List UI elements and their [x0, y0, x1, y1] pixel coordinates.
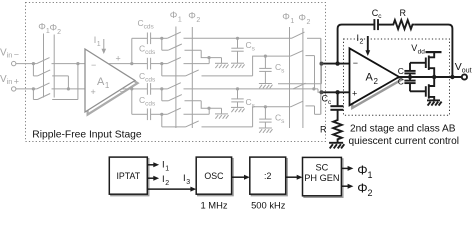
- svg-text:R: R: [400, 8, 407, 18]
- node S4 to top rail: [76, 62, 79, 65]
- node row4: [160, 113, 163, 116]
- label Ccds row2: [139, 44, 156, 57]
- svg-text:1: 1: [105, 81, 110, 90]
- capacitor Cc feedback: [374, 19, 391, 30]
- input terminal Vin-: [12, 61, 34, 65]
- block SC PH GEN: [303, 157, 342, 195]
- ground NMOS source: [427, 100, 442, 105]
- label phi1 bank2: [282, 12, 294, 26]
- svg-text:in: in: [7, 51, 13, 60]
- node class AB caps: [408, 75, 412, 79]
- label Vin-: [0, 48, 19, 60]
- current source I1 arrow: [102, 39, 107, 54]
- svg-text:quiescent current control: quiescent current control: [349, 136, 460, 147]
- svg-text:IPTAT: IPTAT: [116, 171, 140, 181]
- power Vdd rail: [426, 51, 442, 53]
- label I2: [357, 33, 364, 46]
- svg-text:Φ: Φ: [282, 12, 290, 23]
- switch row4 phi2: [162, 108, 209, 114]
- node cross row3: [312, 87, 315, 90]
- op-amp A2 shadow: [352, 51, 402, 108]
- label A2: [366, 72, 379, 87]
- capacitor Cs4: [259, 107, 271, 128]
- wire left rail lower: [131, 89, 133, 114]
- svg-text:2: 2: [368, 188, 373, 198]
- ground R branch: [329, 143, 344, 149]
- svg-text:V: V: [411, 43, 417, 53]
- svg-text:out: out: [462, 68, 472, 75]
- switch row1 phi1: [162, 32, 292, 38]
- svg-text:1: 1: [165, 166, 169, 173]
- node row3: [160, 87, 163, 90]
- svg-text:2nd stage and class AB: 2nd stage and class AB: [350, 123, 456, 134]
- label Vdd: [411, 43, 425, 56]
- label Cs1: [246, 40, 256, 53]
- op-amp A2: [350, 48, 400, 105]
- svg-text:−: −: [91, 60, 96, 70]
- label Cc feedback: [372, 8, 383, 20]
- switch S4 phi2 cross lower: [33, 64, 78, 100]
- svg-text:1: 1: [290, 18, 294, 25]
- switch row1 bank2: [292, 32, 321, 64]
- wire sub-path row3: [162, 89, 222, 114]
- label Cs2: [275, 62, 285, 75]
- svg-text:PH GEN: PH GEN: [304, 173, 339, 183]
- terminal Vout: [462, 74, 467, 79]
- svg-text:in: in: [7, 77, 13, 86]
- node chopper top rail: [32, 62, 35, 65]
- svg-text:2: 2: [57, 29, 61, 36]
- svg-text:−: −: [120, 87, 125, 97]
- svg-text:C: C: [398, 66, 404, 76]
- wire A2 output: [399, 76, 434, 78]
- label I1 bottom: [162, 160, 169, 173]
- arrow div2 to SC: [286, 175, 303, 180]
- wire demod branch busA: [278, 64, 322, 84]
- node rail lower output: [130, 87, 133, 90]
- wire phi2 control line chopper: [53, 35, 55, 98]
- transistor PMOS: [426, 52, 434, 77]
- input terminal Vin+: [12, 87, 34, 91]
- label Cc input branch: [322, 94, 333, 107]
- wire left rail upper: [131, 38, 133, 63]
- svg-text:I: I: [162, 160, 165, 171]
- svg-text:V: V: [455, 61, 462, 73]
- GRAY LABELS: [0, 10, 311, 125]
- wire feedback left vertical and top left: [338, 25, 375, 64]
- node Cs3 row3: [236, 87, 239, 90]
- capacitor C upper class AB: [404, 63, 425, 77]
- arrow OSC to div2: [232, 175, 250, 180]
- label A1: [97, 76, 110, 90]
- wire phi2 control line bank2: [302, 28, 304, 128]
- wire bus A to A2 minus input: [322, 63, 351, 65]
- node Cs1 row1: [236, 37, 239, 40]
- svg-text:1: 1: [178, 17, 182, 24]
- node Cs4 tap: [264, 105, 267, 108]
- ground Cs1: [231, 63, 245, 68]
- label I2 bottom: [162, 174, 169, 187]
- wire A1 output minus: [122, 88, 132, 90]
- ground Cs3: [231, 107, 245, 112]
- ground Cs4: [259, 128, 273, 133]
- svg-text:3: 3: [186, 179, 190, 186]
- wire I3 to OSC: [147, 187, 196, 192]
- svg-text:+: +: [14, 77, 19, 87]
- BOTTOM LABELS: [116, 160, 372, 211]
- svg-text:+: +: [91, 87, 96, 97]
- svg-text:Φ: Φ: [188, 10, 196, 21]
- svg-text:OSC: OSC: [204, 171, 224, 181]
- label phi2 bank1: [188, 10, 200, 24]
- svg-text:C: C: [398, 77, 404, 87]
- switch row3 phi1: [162, 83, 321, 93]
- ground sub1: [215, 63, 229, 68]
- svg-text:cds: cds: [144, 24, 155, 31]
- node sub1: [207, 56, 210, 59]
- block IPTAT: [109, 157, 147, 194]
- switch row2 phi2: [162, 57, 209, 63]
- label phi2 output: [357, 180, 372, 198]
- label Ccds row1: [138, 18, 155, 31]
- capacitor Cs3: [231, 89, 243, 108]
- svg-text:A: A: [366, 72, 374, 84]
- dashed box: 2nd stage and class AB: [344, 39, 450, 115]
- resistor R input branch: [333, 118, 342, 143]
- svg-text:Φ: Φ: [298, 13, 306, 24]
- svg-text:1: 1: [97, 41, 101, 48]
- svg-text:A: A: [97, 76, 105, 88]
- capacitor Cs2: [259, 56, 271, 83]
- wire A1 output plus: [109, 63, 132, 65]
- block OSC shadow: [198, 159, 233, 196]
- capacitor Cs1: [231, 38, 243, 63]
- node bus B: [320, 90, 324, 94]
- svg-text:Φ: Φ: [357, 180, 367, 195]
- node row2: [160, 62, 163, 65]
- block OSC: [196, 157, 231, 194]
- svg-text:Ripple-Free Input Stage: Ripple-Free Input Stage: [32, 129, 142, 140]
- arrow I2: [147, 176, 159, 181]
- resistor R feedback: [392, 20, 415, 29]
- wire phi2 control line bank1: [191, 27, 193, 128]
- wire output bus gray: [320, 38, 322, 114]
- label I1: [94, 35, 101, 48]
- node row1: [160, 37, 163, 40]
- wire sub-path row2: [162, 50, 315, 89]
- node A2 minus feedback: [335, 61, 339, 65]
- node feedback output: [450, 75, 454, 79]
- switch S1 phi1 top straight: [33, 58, 85, 64]
- label phi1 bank1: [170, 10, 182, 24]
- node chopper bottom rail: [32, 87, 35, 90]
- wire phi1 control line chopper: [43, 34, 45, 98]
- node bus A: [320, 62, 324, 66]
- capacitor C lower class AB: [404, 77, 425, 91]
- switch S2 phi2 cross upper: [33, 64, 68, 89]
- svg-text:cds: cds: [145, 77, 156, 84]
- label phi2 bank2: [298, 13, 310, 27]
- node S2 to bottom rail: [67, 87, 70, 90]
- current source I2 arrow: [365, 36, 370, 56]
- capacitor Ccds row2: [132, 58, 162, 70]
- label Vin+: [0, 74, 19, 87]
- BLACK LABELS right side: [320, 8, 472, 147]
- svg-text:−: −: [14, 50, 19, 60]
- node Cs2 tap: [264, 55, 267, 58]
- wire phi1 control line bank2: [289, 27, 291, 128]
- transistor NMOS: [426, 77, 434, 100]
- ground Cs2: [259, 84, 273, 89]
- svg-text:2: 2: [374, 77, 379, 86]
- svg-text:dd: dd: [418, 48, 426, 55]
- capacitor Ccds row1: [132, 33, 162, 45]
- op-amp A1 shadow: [88, 52, 138, 115]
- node A2 plus bias: [335, 90, 339, 94]
- label phi1 chopper: [38, 22, 50, 36]
- label Cs3: [246, 97, 256, 110]
- svg-text:2: 2: [307, 19, 311, 26]
- label phi1 output: [357, 162, 372, 180]
- svg-text:+: +: [352, 89, 357, 99]
- svg-text:1: 1: [368, 170, 373, 180]
- wire sub-path row4: [162, 101, 315, 127]
- op-amp A1: [85, 49, 135, 112]
- label Ccds row4: [139, 95, 156, 108]
- ground sub3: [215, 114, 229, 119]
- arrow phi2 out: [341, 184, 353, 189]
- switch cross row3 bank2: [293, 83, 306, 89]
- svg-text:−: −: [353, 58, 358, 68]
- svg-text:SC: SC: [316, 162, 329, 172]
- svg-text:1 MHz: 1 MHz: [200, 199, 227, 209]
- svg-text:Φ: Φ: [357, 162, 367, 177]
- node rail upper output: [130, 62, 133, 65]
- wire sub4 to bus B: [315, 92, 321, 114]
- block IPTAT shadow: [111, 159, 149, 196]
- label Cs4: [275, 113, 285, 126]
- capacitor Cc input branch: [330, 92, 343, 118]
- svg-text:cds: cds: [145, 49, 156, 56]
- label phi2 chopper: [50, 23, 62, 37]
- node sub3: [207, 107, 210, 110]
- node output drains: [432, 75, 436, 79]
- wire phi1 control line bank1: [175, 27, 177, 129]
- svg-text:+: +: [116, 54, 121, 64]
- dashed box: Ripple-Free Input Stage boundary: [26, 3, 326, 142]
- capacitor Ccds row3: [132, 83, 162, 95]
- svg-text::2: :2: [264, 171, 271, 181]
- block SC PH GEN shadow: [304, 159, 343, 197]
- label Ccds row3: [139, 71, 156, 84]
- label I3 bottom: [183, 173, 190, 186]
- wire feedback top right: [414, 25, 452, 77]
- switch S3 phi1 bottom straight: [33, 83, 85, 89]
- wire sub-path row1: [162, 38, 222, 63]
- svg-text:2: 2: [196, 17, 200, 24]
- label Vout: [455, 61, 472, 75]
- wire to Vout: [434, 76, 462, 78]
- svg-text:Φ: Φ: [170, 10, 178, 21]
- block div2: [250, 157, 286, 194]
- BOTTOM BLOCK DIAGRAM: [109, 157, 353, 197]
- arrow I1: [147, 162, 159, 167]
- svg-text:500 kHz: 500 kHz: [251, 199, 286, 209]
- wire bus B to A2 plus input: [322, 91, 351, 93]
- svg-text:I: I: [183, 173, 186, 184]
- svg-text:2: 2: [360, 39, 364, 46]
- block div2 shadow: [251, 159, 287, 196]
- svg-text:cds: cds: [145, 101, 156, 108]
- svg-text:R: R: [320, 125, 327, 135]
- svg-text:I: I: [162, 174, 165, 185]
- arrow phi1 out: [341, 166, 353, 171]
- capacitor Ccds row4: [132, 109, 162, 121]
- svg-text:2: 2: [165, 180, 169, 187]
